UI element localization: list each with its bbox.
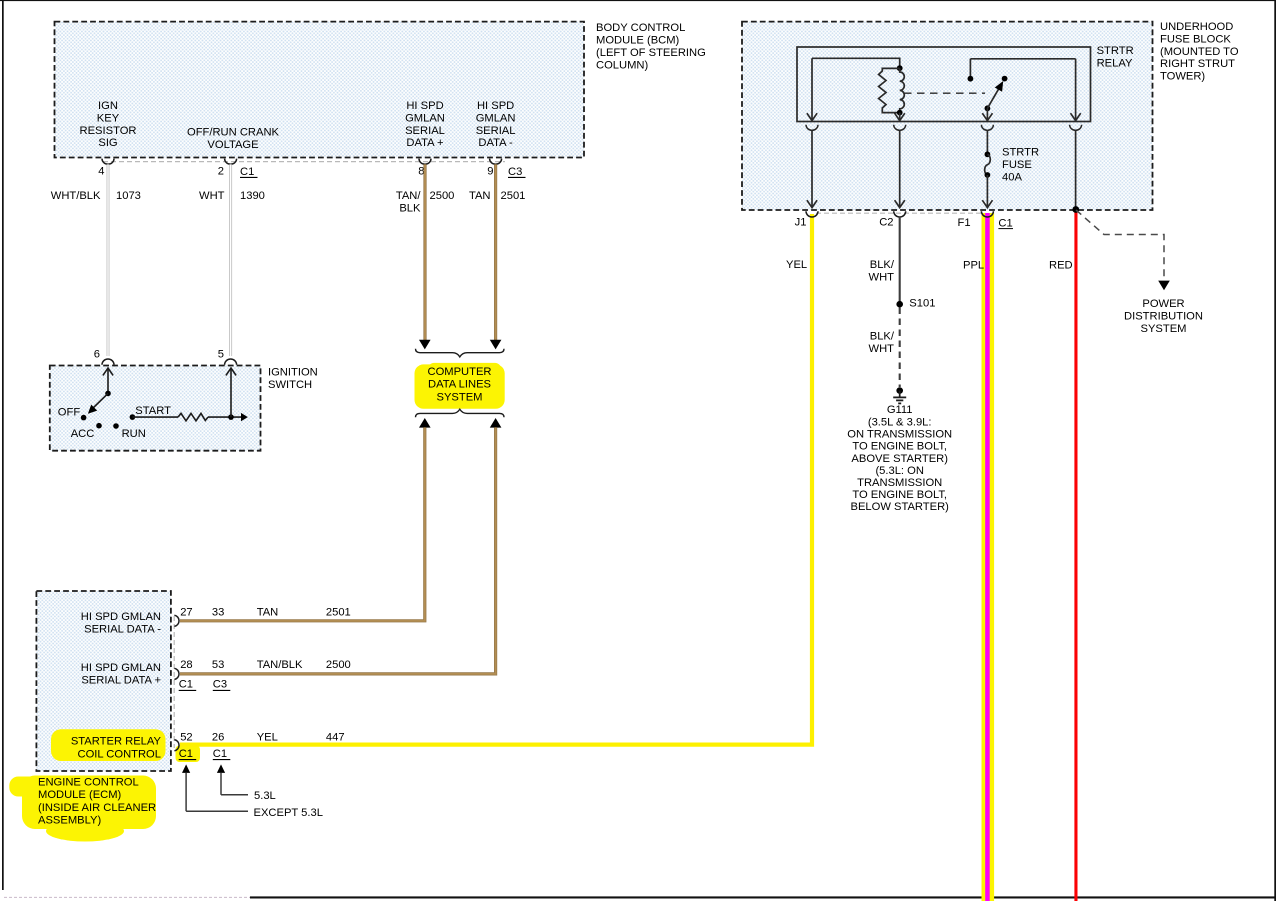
- svg-text:RED: RED: [1049, 260, 1073, 272]
- data wire up arrow left: [419, 418, 431, 428]
- svg-text:27: 27: [180, 606, 192, 618]
- wire BLK/WHT from C2 to S101: [899, 217, 901, 302]
- svg-text:TAN/: TAN/: [396, 190, 422, 202]
- wire relay to J1 with down arrow: [807, 130, 817, 207]
- svg-text:TRANSMISSION: TRANSMISSION: [857, 477, 942, 489]
- svg-text:C1: C1: [179, 748, 193, 760]
- starter relay label STRTR RELAY: [1097, 45, 1134, 69]
- svg-text:C1: C1: [179, 679, 193, 691]
- PPL wire highlight band: [982, 213, 995, 901]
- starter fuse STRTR FUSE 40A: [982, 130, 992, 207]
- relay coil to C2 wire with down arrow: [895, 113, 905, 121]
- body control module BCM box: [55, 22, 585, 158]
- relay coil feed wire: [812, 58, 900, 66]
- svg-text:53: 53: [212, 659, 224, 671]
- svg-text:RELAY: RELAY: [1097, 57, 1133, 69]
- contact OFF: [58, 407, 87, 421]
- relay common to F1 wire with down arrow: [982, 108, 992, 120]
- underhood fuse block box: [742, 22, 1153, 210]
- relay coil top node: [897, 65, 903, 71]
- ignition pin 5 connector cup: [225, 359, 237, 365]
- svg-text:SYSTEM: SYSTEM: [1140, 323, 1186, 335]
- svg-text:(5.3L: ON: (5.3L: ON: [875, 465, 924, 477]
- svg-text:TOWER): TOWER): [1160, 71, 1205, 83]
- svg-text:VOLTAGE: VOLTAGE: [207, 139, 258, 151]
- svg-text:ON TRANSMISSION: ON TRANSMISSION: [847, 429, 952, 441]
- svg-text:FUSE: FUSE: [1002, 159, 1032, 171]
- svg-text:4: 4: [98, 166, 104, 178]
- svg-text:WHT: WHT: [199, 190, 225, 202]
- relay pin 30 wire with down arrow: [1071, 59, 1081, 121]
- svg-text:DATA -: DATA -: [478, 137, 513, 149]
- wire TAN/BLK 2500 (BCM pin 8 down to data lines system): [423, 164, 426, 340]
- wire WHT 1390 (BCM pin 2 to ignition switch pin 5): [229, 164, 232, 356]
- svg-text:(LEFT OF STEERING: (LEFT OF STEERING: [596, 47, 706, 59]
- fuse block terminal cup C2: [894, 211, 906, 217]
- svg-text:BLK: BLK: [399, 203, 421, 215]
- BCM pin label IGN KEY RESISTOR SIG: [80, 100, 137, 149]
- contact START: [130, 405, 172, 420]
- data wire down arrow right: [490, 340, 502, 350]
- relay socket cup common: [981, 125, 993, 131]
- connector label C1: [998, 217, 1013, 229]
- connector label C1: [213, 748, 231, 760]
- svg-text:GMLAN: GMLAN: [476, 112, 516, 124]
- svg-text:COIL CONTROL: COIL CONTROL: [77, 748, 161, 760]
- svg-text:C1: C1: [213, 748, 227, 760]
- svg-text:WHT/BLK: WHT/BLK: [51, 190, 101, 202]
- svg-text:IGN: IGN: [98, 100, 118, 112]
- svg-text:5.3L: 5.3L: [254, 790, 276, 802]
- svg-text:ENGINE CONTROL: ENGINE CONTROL: [38, 776, 139, 788]
- page frame top line: [0, 0, 1276, 1]
- svg-text:1390: 1390: [240, 190, 265, 202]
- wire from junction up to pin 5 with up arrow: [226, 368, 236, 417]
- svg-text:HI SPD GMLAN: HI SPD GMLAN: [81, 611, 161, 623]
- svg-text:RIGHT STRUT: RIGHT STRUT: [1160, 58, 1235, 70]
- svg-text:STRTR: STRTR: [1097, 45, 1134, 57]
- svg-text:HI SPD: HI SPD: [406, 100, 443, 112]
- svg-text:FUSE BLOCK: FUSE BLOCK: [1160, 33, 1231, 45]
- page frame bottom-left faint edge: [4, 896, 250, 898]
- ECM note arrow 5.3L: [217, 764, 248, 794]
- relay switch feed wire: [970, 58, 1075, 60]
- svg-text:WHT: WHT: [869, 271, 895, 283]
- svg-text:SIG: SIG: [98, 137, 117, 149]
- svg-text:F1: F1: [958, 217, 971, 229]
- splice S101: [896, 298, 935, 310]
- wire PPL from F1 down off page: [985, 213, 990, 901]
- ECM label STARTER RELAY COIL CONTROL: [71, 736, 162, 761]
- data wire up arrow right: [490, 418, 502, 428]
- svg-text:RUN: RUN: [122, 428, 146, 440]
- BCM pin 2 connector cup: [225, 159, 237, 165]
- svg-text:POWER: POWER: [1142, 298, 1184, 310]
- engine control module label highlight: [9, 776, 156, 842]
- computer data lines system label: [427, 366, 491, 403]
- relay socket cup pin 86: [806, 125, 818, 131]
- connector label C3: [508, 166, 526, 178]
- BCM pin label OFF/RUN CRANK VOLTAGE: [187, 127, 280, 151]
- ground G111: [893, 387, 906, 403]
- wire BLK/WHT dashed from S101 to G111: [899, 308, 901, 388]
- svg-text:COMPUTER: COMPUTER: [427, 366, 491, 378]
- wire WHT/BLK 1073 (BCM pin 4 to ignition switch pin 6): [107, 164, 110, 356]
- svg-text:40A: 40A: [1002, 171, 1022, 183]
- fuse label STRTR FUSE 40A: [1002, 147, 1039, 184]
- svg-text:2500: 2500: [430, 190, 455, 202]
- svg-text:SERIAL: SERIAL: [476, 125, 516, 137]
- svg-text:OFF: OFF: [58, 407, 81, 419]
- power distribution system label: [1124, 298, 1203, 335]
- page frame left line: [2, 0, 4, 890]
- svg-text:TO ENGINE BOLT,: TO ENGINE BOLT,: [852, 441, 947, 453]
- ignition pin 6 connector cup: [102, 359, 114, 365]
- svg-text:STRTR: STRTR: [1002, 147, 1039, 159]
- relay linkage dashed line: [904, 92, 985, 94]
- svg-text:TAN: TAN: [257, 606, 279, 618]
- junction dot at pin 5 branch: [228, 414, 234, 420]
- BCM pin label HI SPD GMLAN SERIAL DATA -: [476, 100, 516, 149]
- relay coil winding: [900, 68, 905, 112]
- BCM pin 9 connector cup: [490, 159, 502, 165]
- svg-text:2: 2: [218, 166, 224, 178]
- relay switch blade: [985, 76, 1008, 112]
- engine control module ECM box: [36, 591, 171, 771]
- svg-text:COLUMN): COLUMN): [596, 59, 648, 71]
- svg-text:C1: C1: [240, 166, 254, 178]
- svg-text:TAN/BLK: TAN/BLK: [257, 659, 303, 671]
- svg-text:BLK/: BLK/: [870, 331, 895, 343]
- connector label C1: [240, 166, 258, 178]
- page frame bottom line: [250, 896, 1276, 898]
- svg-text:IGNITION: IGNITION: [268, 367, 318, 379]
- wire TAN/BLK 2500 from data lines to ECM pin 28: [180, 427, 496, 674]
- fuse block terminal cup F1: [981, 211, 993, 217]
- ignition resistor: [132, 413, 247, 421]
- relay fixed contact: [968, 59, 974, 82]
- svg-text:STARTER RELAY: STARTER RELAY: [71, 736, 162, 748]
- svg-text:BLK/: BLK/: [870, 259, 895, 271]
- dashed wire to power distribution system: [1076, 210, 1164, 281]
- svg-text:SERIAL: SERIAL: [405, 125, 445, 137]
- svg-text:HI SPD GMLAN: HI SPD GMLAN: [81, 662, 161, 674]
- power distribution down arrow: [1158, 281, 1170, 291]
- wire relay to red feed: [1075, 130, 1077, 208]
- svg-text:SYSTEM: SYSTEM: [436, 391, 482, 403]
- wire relay to C2 with down arrow: [895, 130, 905, 207]
- svg-text:28: 28: [180, 659, 192, 671]
- relay pin 86 wire with down arrow: [807, 58, 817, 120]
- svg-text:ASSEMBLY): ASSEMBLY): [38, 815, 101, 827]
- contact RUN: [113, 423, 146, 440]
- svg-text:2501: 2501: [326, 606, 351, 618]
- wire RED from relay down off page: [1074, 212, 1077, 901]
- relay coil resistor: [879, 68, 900, 112]
- contact ACC: [71, 423, 102, 440]
- svg-text:DATA LINES: DATA LINES: [428, 379, 491, 391]
- svg-text:TAN: TAN: [469, 190, 491, 202]
- wire YEL 447 from ECM pin 52 to starter relay J1: [180, 214, 812, 745]
- page frame right line: [1274, 0, 1276, 901]
- svg-text:MODULE (ECM): MODULE (ECM): [38, 789, 122, 801]
- ECM connector gray dashed line: [173, 616, 175, 748]
- svg-text:HI SPD: HI SPD: [477, 100, 514, 112]
- connector label C3: [213, 679, 231, 691]
- BCM connector gray dashed line: [103, 161, 505, 163]
- svg-text:G111: G111: [887, 404, 913, 416]
- BCM title label: [596, 22, 706, 71]
- svg-text:J1: J1: [795, 217, 807, 229]
- svg-text:(MOUNTED TO: (MOUNTED TO: [1160, 46, 1239, 58]
- svg-text:BELOW STARTER): BELOW STARTER): [850, 501, 949, 513]
- BCM pin 8 connector cup: [419, 159, 431, 165]
- svg-text:YEL: YEL: [257, 731, 278, 743]
- svg-text:SWITCH: SWITCH: [268, 379, 312, 391]
- red feed junction dot: [1072, 206, 1079, 213]
- svg-text:DISTRIBUTION: DISTRIBUTION: [1124, 310, 1203, 322]
- ignition switch title: [268, 367, 318, 391]
- ground label G111 and note: [847, 404, 952, 513]
- ECM note arrow EXCEPT 5.3L: [182, 764, 248, 811]
- svg-text:6: 6: [94, 349, 100, 361]
- svg-text:1073: 1073: [116, 190, 141, 202]
- svg-text:DATA +: DATA +: [406, 137, 443, 149]
- svg-text:OFF/RUN CRANK: OFF/RUN CRANK: [187, 127, 280, 139]
- svg-text:BODY CONTROL: BODY CONTROL: [596, 22, 685, 34]
- ECM pin 27 connector cup: [174, 615, 179, 626]
- fuse block terminal cup J1: [806, 211, 818, 217]
- ECM label HI SPD GMLAN SERIAL DATA -: [81, 611, 161, 636]
- svg-text:UNDERHOOD: UNDERHOOD: [1160, 21, 1233, 33]
- starter relay coil control highlight: [51, 729, 166, 761]
- ECM C1 pin highlight: [176, 746, 201, 763]
- svg-text:RESISTOR: RESISTOR: [80, 125, 137, 137]
- svg-text:SERIAL DATA -: SERIAL DATA -: [84, 624, 161, 636]
- wire TAN 2501 (BCM pin 9 down to data lines system): [494, 164, 497, 340]
- relay socket cup pin 30: [1070, 125, 1082, 131]
- ECM pin 52 connector cup: [174, 740, 179, 751]
- svg-text:WHT: WHT: [869, 343, 895, 355]
- svg-text:2500: 2500: [326, 659, 351, 671]
- wire label TAN/BLK: [396, 190, 422, 214]
- svg-text:START: START: [135, 405, 171, 417]
- upper brace: [416, 349, 505, 357]
- svg-text:C3: C3: [508, 166, 522, 178]
- svg-text:EXCEPT 5.3L: EXCEPT 5.3L: [254, 807, 323, 819]
- ECM pin 28 connector cup: [174, 668, 179, 679]
- BCM pin 4 connector cup: [102, 159, 114, 165]
- svg-text:YEL: YEL: [786, 259, 807, 271]
- computer data lines system highlight: [415, 363, 505, 409]
- svg-text:(INSIDE AIR CLEANER: (INSIDE AIR CLEANER: [38, 802, 156, 814]
- svg-text:52: 52: [180, 731, 192, 743]
- svg-text:ABOVE STARTER): ABOVE STARTER): [851, 453, 948, 465]
- svg-text:2501: 2501: [501, 190, 526, 202]
- second wire label BLK/WHT: [869, 331, 895, 356]
- svg-text:5: 5: [218, 349, 224, 361]
- engine control module ECM label: [38, 776, 156, 826]
- svg-text:PPL: PPL: [963, 260, 984, 272]
- connector label C1: [179, 679, 197, 691]
- svg-text:(3.5L & 3.9L:: (3.5L & 3.9L:: [868, 417, 932, 429]
- connector label C1 highlighted: [179, 748, 197, 760]
- BCM pin label HI SPD GMLAN SERIAL DATA +: [405, 100, 445, 149]
- underhood fuse block title: [1160, 21, 1239, 83]
- relay coil bottom node: [897, 110, 903, 116]
- ECM label HI SPD GMLAN SERIAL DATA +: [81, 662, 161, 687]
- ignition switch box: [50, 366, 261, 451]
- svg-text:S101: S101: [909, 298, 935, 310]
- svg-text:9: 9: [487, 166, 493, 178]
- svg-text:C1: C1: [998, 217, 1012, 229]
- svg-text:KEY: KEY: [97, 112, 120, 124]
- fuse block connector gray dashed line: [816, 212, 984, 214]
- wire TAN 2501 from data lines to ECM pin 27: [180, 427, 425, 620]
- starter relay box: [797, 47, 1091, 122]
- relay socket cup pin 85: [894, 125, 906, 131]
- data wire down arrow left: [419, 340, 431, 350]
- wire label BLK/WHT: [869, 259, 895, 284]
- svg-text:C2: C2: [879, 217, 893, 229]
- svg-text:SERIAL DATA +: SERIAL DATA +: [81, 675, 161, 687]
- svg-text:33: 33: [212, 606, 224, 618]
- ignition switch wiper arm: [88, 391, 111, 414]
- svg-text:26: 26: [212, 731, 224, 743]
- svg-text:TO ENGINE BOLT,: TO ENGINE BOLT,: [852, 489, 947, 501]
- svg-text:MODULE (BCM): MODULE (BCM): [596, 35, 680, 47]
- lower brace: [416, 409, 505, 417]
- svg-text:447: 447: [326, 731, 345, 743]
- svg-text:C3: C3: [213, 679, 227, 691]
- wire from pin 6 to wiper pivot with up arrow: [103, 368, 113, 393]
- svg-text:GMLAN: GMLAN: [405, 112, 445, 124]
- svg-text:ACC: ACC: [71, 428, 95, 440]
